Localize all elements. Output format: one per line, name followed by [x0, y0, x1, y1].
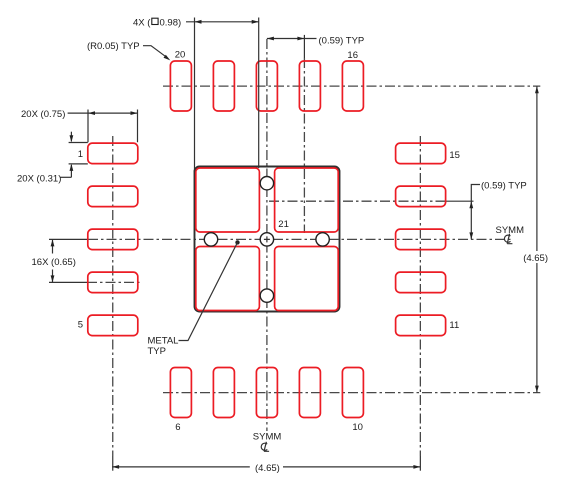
dimension 4X (0.98): dimension line: [186, 21, 259, 23]
svg-text:15: 15: [449, 150, 460, 161]
dimension (4.65) right: [536, 86, 538, 392]
svg-text:21: 21: [278, 219, 289, 230]
pad 4: [88, 272, 138, 293]
pad 8: [256, 368, 277, 418]
dimension (0.59) TYP right: [471, 185, 480, 240]
leader (R0.05) TYP: [143, 46, 167, 58]
svg-text:(0.59) TYP: (0.59) TYP: [319, 35, 365, 46]
pad 5: [88, 315, 138, 336]
pad 11: [396, 315, 446, 336]
via left: [204, 233, 217, 246]
via center: [260, 233, 273, 246]
svg-text:(0.59) TYP: (0.59) TYP: [481, 181, 527, 192]
via bottom: [260, 289, 273, 302]
svg-text:(4.65): (4.65): [523, 253, 548, 264]
pad 20: [170, 61, 191, 111]
wire: right pad column centerline: [419, 136, 421, 456]
wire: paste square row centerline (0.59 ref): [269, 200, 446, 202]
wire: left pad column centerline: [112, 136, 114, 456]
pad 10: [342, 368, 363, 418]
symbol centerline right: [504, 234, 512, 244]
dimension 20X (0.75): [88, 110, 138, 143]
pad 3: [88, 229, 138, 250]
pad 7: [213, 368, 234, 418]
svg-text:1: 1: [78, 149, 83, 160]
svg-text:16: 16: [347, 50, 358, 61]
pad 9: [299, 368, 320, 418]
via top: [260, 177, 273, 190]
wire: bottom pad row centerline: [163, 392, 540, 394]
svg-text:20X (0.75): 20X (0.75): [21, 109, 65, 120]
svg-text:SYMM: SYMM: [253, 431, 282, 442]
paste square bottom-left: [196, 247, 260, 311]
dimension 16X (0.65): [52, 239, 54, 282]
svg-text:5: 5: [78, 320, 83, 331]
svg-text:20X (0.31): 20X (0.31): [17, 174, 61, 185]
wire: top pad row centerline: [163, 85, 540, 87]
svg-text:METAL: METAL: [148, 336, 179, 347]
symbol centerline bottom: [261, 442, 269, 452]
svg-text:TYP: TYP: [148, 346, 166, 357]
pad 1: [88, 143, 138, 164]
pad 19: [213, 61, 234, 111]
pad 12: [396, 272, 446, 293]
via right: [316, 233, 329, 246]
svg-text:10: 10: [352, 422, 363, 433]
paste square bottom-right: [275, 247, 339, 311]
svg-text:(R0.05) TYP: (R0.05) TYP: [87, 41, 140, 52]
paste square top-left: [196, 168, 260, 232]
svg-text:0.98): 0.98): [160, 17, 182, 28]
svg-text:4X (: 4X (: [133, 17, 151, 28]
svg-text:20: 20: [175, 49, 186, 60]
leader METAL TYP: [235, 240, 239, 244]
dimension 4X (0.98): extension lines: [195, 18, 259, 173]
dimension 20X (0.31): [69, 143, 88, 164]
wire: pad 4 row extension line: [49, 281, 87, 283]
pad 18: [256, 61, 277, 111]
pad 13: [396, 229, 446, 250]
svg-text:(4.65): (4.65): [255, 463, 280, 474]
pad 15: [396, 143, 446, 164]
pad 16: [342, 61, 363, 111]
dimension (4.65) bottom: [112, 466, 420, 468]
wire: paste square column centerline (0.59 ref): [303, 35, 305, 58]
pad 17: [299, 61, 320, 111]
dimension (0.59) TYP top: [267, 38, 317, 40]
svg-text:11: 11: [449, 320, 459, 331]
thermal pad 21 outline: [195, 167, 340, 312]
pad 2: [88, 186, 138, 207]
wire: horizontal symmetry centerline: [49, 238, 88, 240]
svg-text:16X (0.65): 16X (0.65): [32, 257, 76, 268]
wire: vertical symmetry centerline: [266, 39, 268, 431]
pad 14: [396, 186, 446, 207]
paste square top-right: [275, 168, 339, 232]
pad 6: [170, 368, 191, 418]
svg-text:6: 6: [175, 422, 180, 433]
